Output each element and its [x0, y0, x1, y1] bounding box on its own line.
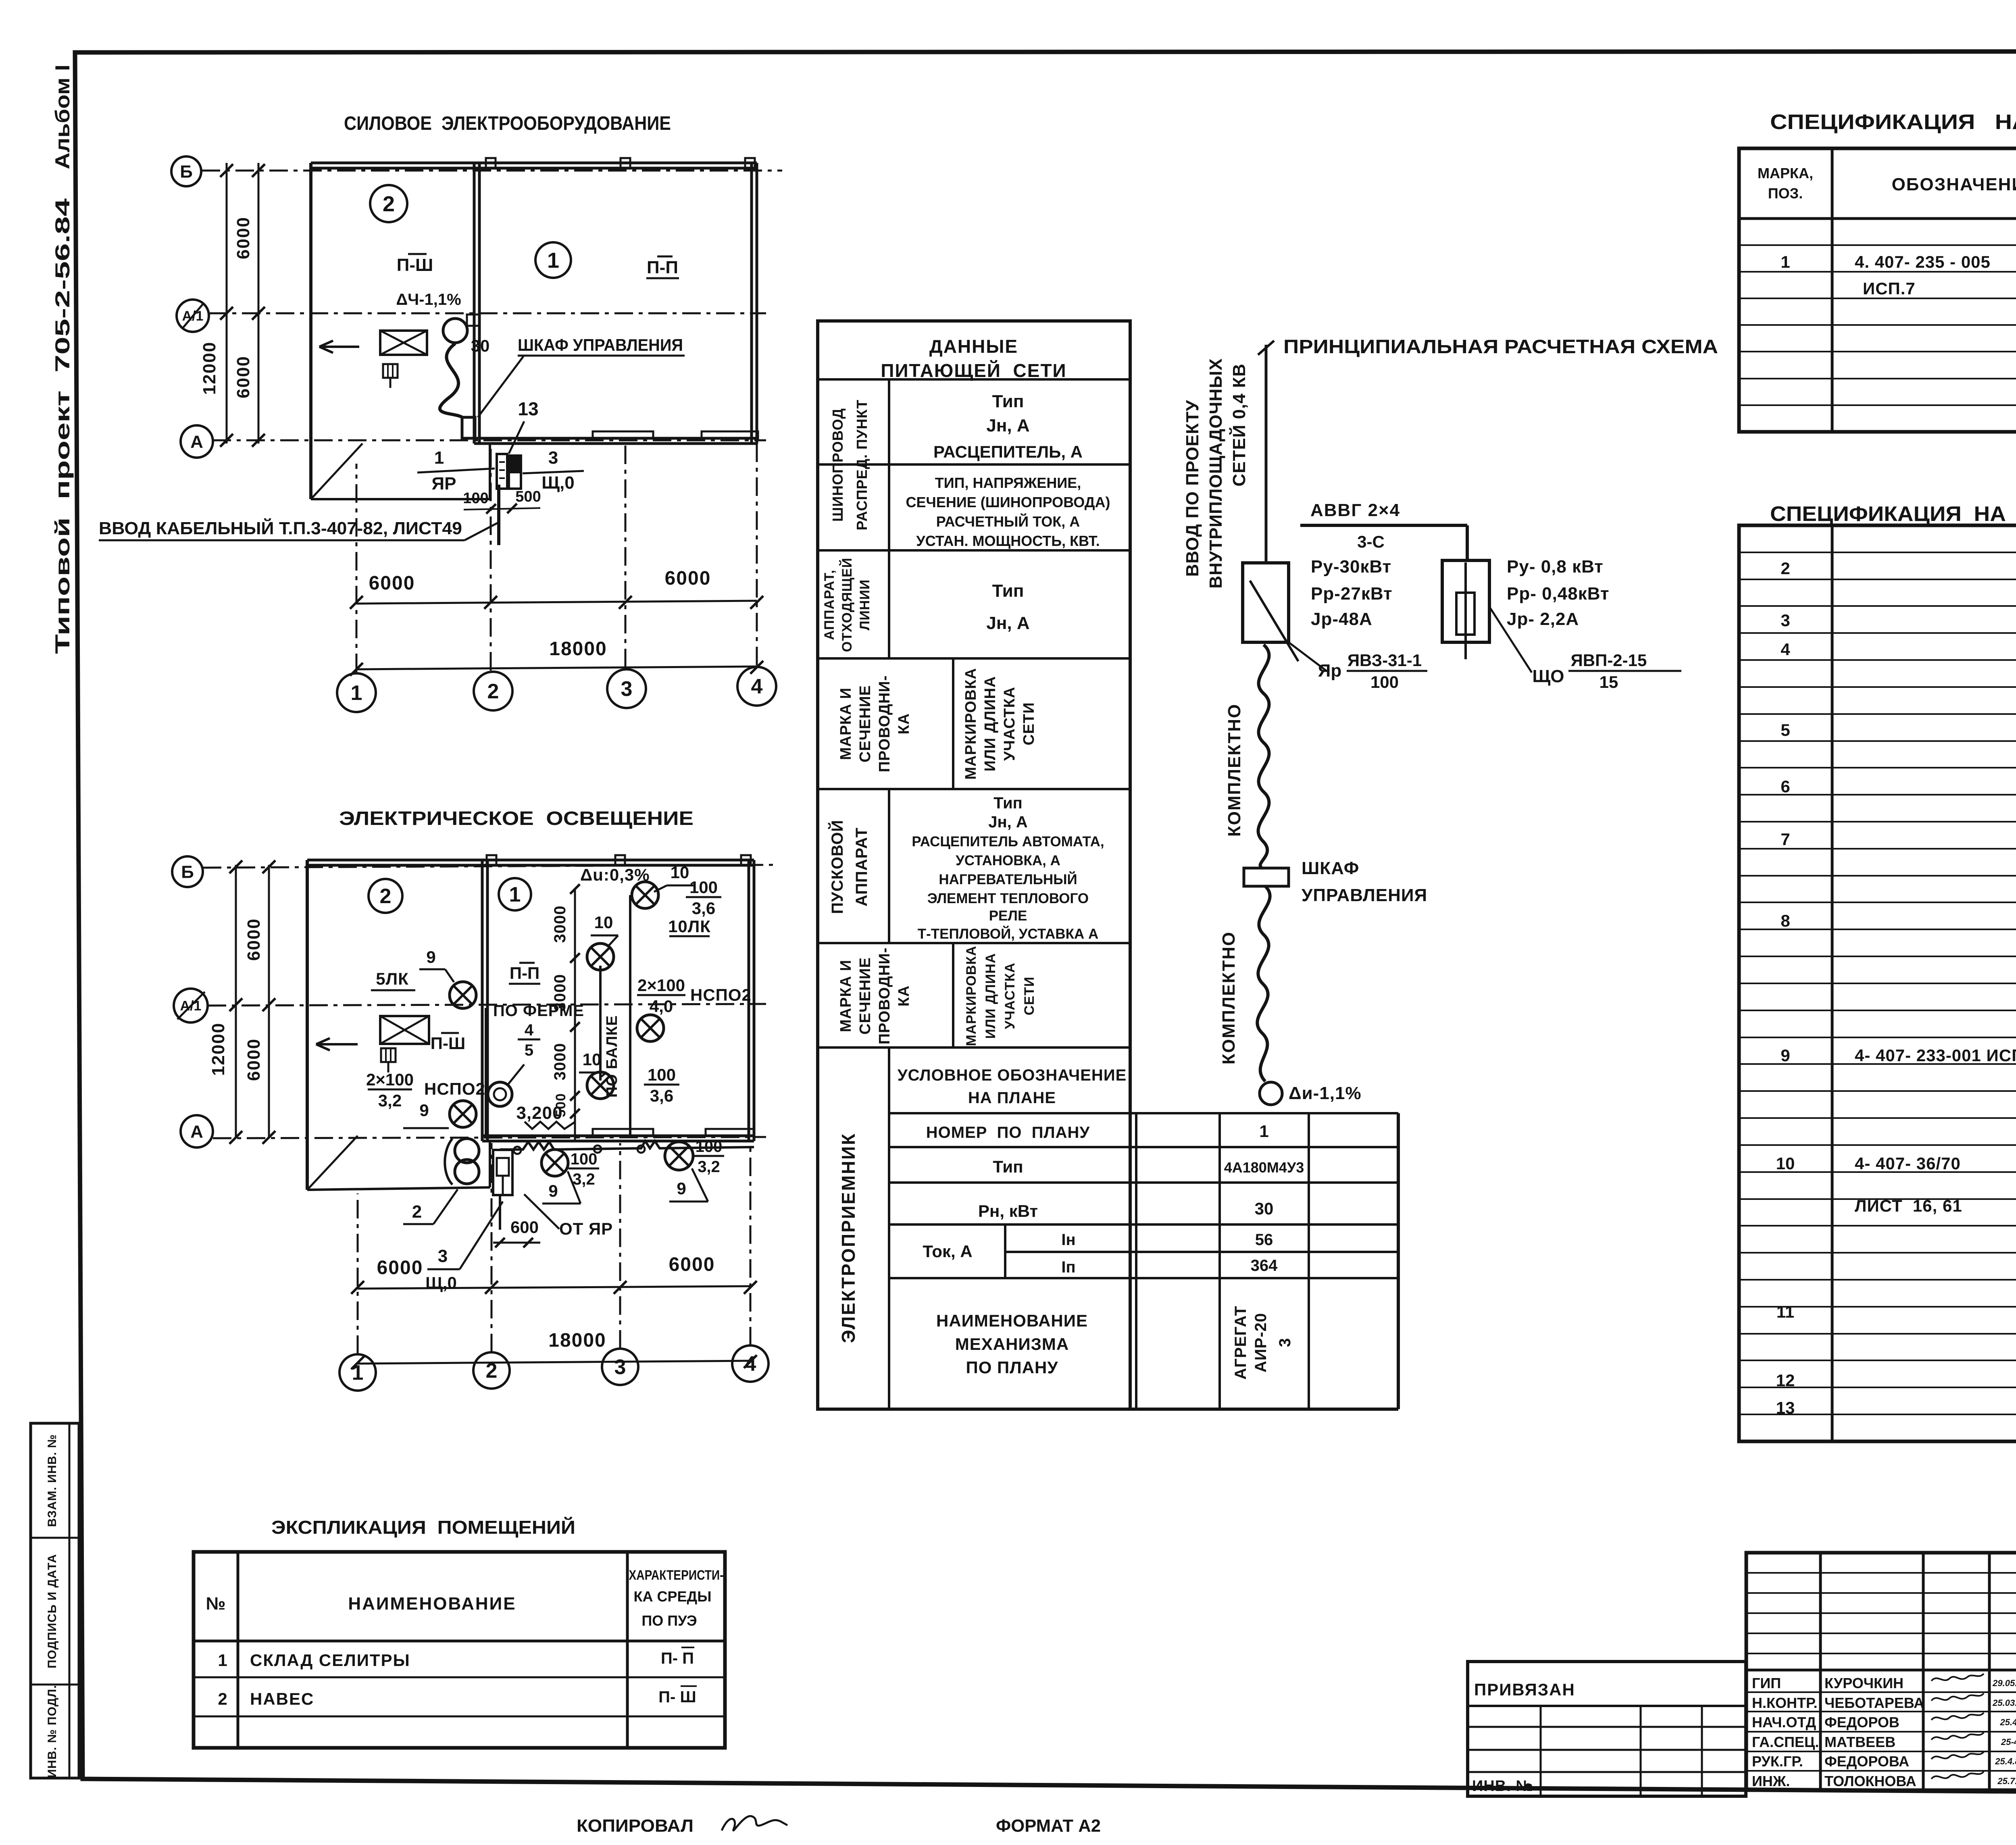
cable wavy 2	[1257, 886, 1270, 1081]
svg-text:1: 1	[547, 248, 559, 273]
axis line 2 vertical	[490, 446, 492, 671]
axis circle А/1	[177, 300, 209, 332]
box ShchO schematic	[1442, 560, 1489, 659]
svg-text:ЯВП-2-15: ЯВП-2-15	[1571, 651, 1647, 670]
svg-text:МАРКИРОВКА: МАРКИРОВКА	[964, 945, 979, 1046]
column mark	[745, 158, 755, 168]
axis circle А/1	[174, 989, 208, 1022]
axis line A lighting	[213, 1137, 766, 1138]
axis line 3 vertical	[625, 444, 627, 667]
svg-text:10: 10	[583, 1050, 602, 1069]
cable wavy 1	[1258, 645, 1269, 868]
cable entry label	[99, 518, 498, 540]
strip divider 2	[31, 1684, 79, 1686]
svg-text:МАРКА,: МАРКА,	[1758, 165, 1813, 181]
axis circle 3	[602, 1349, 638, 1385]
svg-text:3,2: 3,2	[378, 1091, 402, 1110]
svg-text:10: 10	[594, 913, 613, 932]
svg-text:Ру- 0,8 кВт: Ру- 0,8 кВт	[1507, 557, 1604, 577]
svg-text:УПРАВЛЕНИЯ: УПРАВЛЕНИЯ	[1302, 885, 1427, 905]
axis circle 1	[339, 1354, 376, 1391]
svg-text:1: 1	[509, 883, 521, 906]
svg-text:Јр-48А: Јр-48А	[1311, 609, 1372, 629]
svg-text:3: 3	[548, 448, 558, 468]
svg-text:УСТАН. МОЩНОСТЬ, КВТ.: УСТАН. МОЩНОСТЬ, КВТ.	[916, 533, 1100, 549]
title block outline	[1746, 1553, 2016, 1790]
svg-text:29.05.84: 29.05.84	[1992, 1678, 2016, 1688]
svg-text:12000: 12000	[208, 1022, 228, 1076]
frac 100/3.6 L4	[644, 1065, 679, 1105]
svg-text:3000: 3000	[551, 1043, 569, 1081]
svg-text:КА: КА	[896, 713, 912, 735]
svg-text:3000: 3000	[551, 906, 569, 943]
box ShchO	[509, 456, 521, 489]
dim line 6000/6000 vertical	[258, 163, 260, 444]
svg-text:Јн, А: Јн, А	[986, 613, 1029, 633]
box YaR	[497, 454, 507, 489]
axis circle Б	[171, 156, 201, 186]
local light symbol	[488, 1082, 512, 1106]
svg-text:ГА.СПЕЦ.: ГА.СПЕЦ.	[1752, 1734, 1819, 1750]
svg-text:3: 3	[621, 677, 633, 701]
dim line 6000 vertical lighting	[268, 865, 270, 1138]
svg-text:15: 15	[1599, 673, 1618, 691]
svg-text:П-Ш: П-Ш	[431, 1034, 465, 1053]
svg-text:ОТ ЯР: ОТ ЯР	[559, 1219, 613, 1238]
svg-text:3: 3	[1781, 611, 1790, 630]
svg-text:5: 5	[525, 1041, 533, 1059]
svg-text:ПО ФЕРМЕ: ПО ФЕРМЕ	[493, 1002, 584, 1020]
svg-text:100: 100	[648, 1065, 676, 1084]
svg-text:П-П: П-П	[647, 258, 678, 277]
svg-text:4- 407- 36/70: 4- 407- 36/70	[1855, 1154, 1961, 1173]
axis line A/1 lighting	[208, 1004, 766, 1006]
svg-text:Б: Б	[181, 862, 194, 882]
strip divider 1	[31, 1537, 79, 1539]
svg-text:ШКАФ: ШКАФ	[1302, 858, 1359, 878]
svg-text:4,0: 4,0	[650, 997, 673, 1016]
zone label P-II	[646, 256, 679, 278]
svg-text:СКЛАД СЕЛИТРЫ: СКЛАД СЕЛИТРЫ	[250, 1651, 410, 1670]
svg-text:РАСЦЕПИТЕЛЬ АВТОМАТА,: РАСЦЕПИТЕЛЬ АВТОМАТА,	[912, 834, 1104, 850]
svg-text:КОМПЛЕКТНО: КОМПЛЕКТНО	[1225, 704, 1244, 837]
svg-text:СЕЧЕНИЕ: СЕЧЕНИЕ	[857, 685, 874, 762]
room circle 1	[535, 242, 571, 278]
spec2 outline	[1739, 525, 2016, 1441]
svg-text:25.03.85: 25.03.85	[1992, 1698, 2016, 1708]
svg-text:9: 9	[548, 1181, 558, 1200]
svg-text:3,6: 3,6	[650, 1086, 673, 1105]
svg-text:Альбом I: Альбом I	[51, 65, 74, 169]
label 3 / Shch0	[425, 1202, 503, 1292]
svg-text:ЭЛЕКТРИЧЕСКОЕ ОСВЕЩЕНИЕ: ЭЛЕКТРИЧЕСКОЕ ОСВЕЩЕНИЕ	[339, 808, 694, 829]
svg-text:100: 100	[1370, 673, 1399, 691]
svg-text:Ру-30кВт: Ру-30кВт	[1311, 557, 1391, 577]
feed table outline	[818, 321, 1130, 1409]
svg-text:ДАННЫЕ: ДАННЫЕ	[929, 336, 1018, 357]
svg-text:СЕЧЕНИЕ: СЕЧЕНИЕ	[857, 957, 874, 1035]
hatched equipment box lighting	[380, 1016, 429, 1044]
dim 600	[493, 1218, 540, 1247]
svg-text:РЕЛЕ: РЕЛЕ	[989, 908, 1027, 924]
svg-text:Тип: Тип	[992, 391, 1024, 411]
svg-text:10: 10	[1776, 1154, 1795, 1173]
svg-text:2×100: 2×100	[637, 976, 685, 995]
svg-text:25.4.85: 25.4.85	[1995, 1756, 2016, 1766]
svg-text:МАРКА И: МАРКА И	[837, 960, 854, 1032]
lamp L2	[587, 943, 614, 970]
svg-text:6000: 6000	[665, 568, 711, 589]
hook 3200	[525, 1122, 575, 1129]
svg-text:ПРИВЯЗАН: ПРИВЯЗАН	[1474, 1680, 1575, 1699]
label 10lk	[668, 917, 711, 936]
svg-text:2: 2	[412, 1202, 422, 1222]
label 3 / Shch,O	[523, 448, 584, 493]
svg-text:МАРКА И: МАРКА И	[837, 687, 854, 760]
frac 100/3.6 top	[686, 878, 721, 918]
margin strip box	[31, 1423, 79, 1778]
control cabinet on plan	[462, 417, 475, 438]
svg-text:ИЛИ ДЛИНА: ИЛИ ДЛИНА	[982, 676, 999, 772]
control cabinet schematic	[1244, 868, 1289, 886]
dim line 12000 vertical lighting	[235, 865, 237, 1138]
label 10 L2	[591, 913, 618, 945]
axis circle 4	[737, 667, 776, 706]
svg-text:4- 407- 233-001 ИСП.3: 4- 407- 233-001 ИСП.3	[1855, 1046, 2016, 1065]
svg-text:6000: 6000	[233, 217, 253, 259]
svg-text:18000: 18000	[548, 1330, 606, 1351]
svg-text:НОМЕР ПО ПЛАНУ: НОМЕР ПО ПЛАНУ	[926, 1124, 1090, 1141]
svg-text:П-П: П-П	[510, 964, 539, 983]
svg-text:Рр-27кВт: Рр-27кВт	[1311, 584, 1393, 604]
junction box	[514, 1147, 521, 1154]
svg-text:6000: 6000	[244, 1038, 264, 1081]
svg-text:ЛИНИИ: ЛИНИИ	[857, 579, 873, 631]
wire to lamps row right	[629, 895, 631, 1138]
svg-text:АВВГ 2×4: АВВГ 2×4	[1310, 500, 1400, 520]
transformer symbol	[445, 1139, 479, 1185]
svg-text:НАГРЕВАТЕЛЬНЫЙ: НАГРЕВАТЕЛЬНЫЙ	[939, 871, 1077, 887]
svg-text:СЕТИ: СЕТИ	[1022, 977, 1037, 1015]
svg-text:Јн, А: Јн, А	[986, 416, 1029, 435]
vent symbol	[383, 364, 398, 388]
svg-text:ОТХОДЯЩЕЙ: ОТХОДЯЩЕЙ	[839, 558, 855, 652]
svg-text:ИНВ. №: ИНВ. №	[1472, 1778, 1533, 1795]
svg-text:ВВОД ПО ПРОЕКТУ: ВВОД ПО ПРОЕКТУ	[1183, 400, 1202, 577]
svg-text:3: 3	[614, 1356, 626, 1379]
svg-text:А: А	[190, 432, 203, 452]
svg-text:ИСП.7: ИСП.7	[1863, 279, 1916, 298]
frac 2x100/3.2	[366, 1070, 414, 1110]
svg-text:7: 7	[1781, 830, 1790, 849]
label 1 / YaR	[417, 448, 495, 494]
svg-text:НА ПЛАНЕ: НА ПЛАНЕ	[968, 1089, 1056, 1107]
svg-text:13: 13	[518, 398, 538, 419]
svg-text:Рр- 0,48кВт: Рр- 0,48кВт	[1507, 584, 1610, 604]
svg-text:6000: 6000	[233, 356, 253, 398]
svg-text:6: 6	[1781, 777, 1790, 796]
junction box	[637, 1145, 645, 1153]
wire lamps middle column	[599, 966, 602, 1081]
svg-text:П- П: П- П	[661, 1649, 694, 1667]
svg-text:25.7.3: 25.7.3	[1997, 1776, 2016, 1786]
svg-text:ПО ПЛАНУ: ПО ПЛАНУ	[966, 1358, 1058, 1377]
svg-text:9: 9	[677, 1179, 686, 1198]
axis circle 1	[337, 673, 376, 712]
svg-text:3,2: 3,2	[573, 1170, 595, 1188]
svg-text:6000: 6000	[244, 918, 264, 961]
svg-text:Δи-1,1%: Δи-1,1%	[1289, 1083, 1362, 1103]
svg-text:АГРЕГАТ: АГРЕГАТ	[1232, 1306, 1250, 1379]
svg-text:5ЛК: 5ЛК	[376, 969, 408, 988]
svg-text:Тип: Тип	[993, 794, 1023, 812]
svg-text:Δu:0,3%: Δu:0,3%	[580, 865, 650, 884]
lamp L7	[541, 1149, 568, 1176]
svg-text:ВЗАМ. ИНВ. №: ВЗАМ. ИНВ. №	[46, 1434, 59, 1527]
svg-text:МАТВЕЕВ: МАТВЕЕВ	[1824, 1734, 1895, 1750]
svg-text:УЧАСТКА: УЧАСТКА	[1001, 687, 1018, 761]
axis line B	[202, 170, 782, 172]
end node circle	[1260, 1082, 1282, 1105]
svg-text:12000: 12000	[200, 342, 219, 395]
dim line 18000 lighting	[358, 1361, 750, 1364]
cable run line	[1300, 524, 1467, 527]
svg-text:СЕЧЕНИЕ (ШИНОПРОВОДА): СЕЧЕНИЕ (ШИНОПРОВОДА)	[906, 494, 1110, 510]
axis line A	[212, 439, 766, 441]
zone label P-III lighting	[431, 1033, 465, 1053]
svg-text:ЩО: ЩО	[1532, 666, 1564, 686]
svg-text:ЭЛЕКТРОПРИЕМНИК: ЭЛЕКТРОПРИЕМНИК	[838, 1133, 859, 1343]
svg-text:2: 2	[380, 885, 392, 908]
svg-text:4А180М4У3: 4А180М4У3	[1224, 1159, 1304, 1176]
svg-text:6000: 6000	[377, 1257, 423, 1279]
axis 2 vertical lighting	[491, 1143, 493, 1352]
svg-text:КА СРЕДЫ: КА СРЕДЫ	[634, 1588, 712, 1605]
vent symbol lighting	[381, 1048, 396, 1072]
svg-text:ПРОВОДНИ-: ПРОВОДНИ-	[876, 947, 893, 1045]
svg-text:4: 4	[525, 1021, 534, 1039]
svg-text:Ток, А: Ток, А	[923, 1242, 972, 1261]
svg-text:8: 8	[1781, 911, 1790, 930]
svg-text:Н.КОНТР.: Н.КОНТР.	[1752, 1695, 1818, 1711]
column mark	[487, 855, 496, 865]
svg-text:РУК.ГР.: РУК.ГР.	[1752, 1753, 1803, 1770]
svg-text:ПО БАЛКЕ: ПО БАЛКЕ	[604, 1015, 621, 1097]
svg-text:1: 1	[218, 1651, 227, 1670]
svg-text:ИНВ. № ПОДЛ.: ИНВ. № ПОДЛ.	[46, 1685, 59, 1778]
svg-text:10: 10	[671, 863, 689, 882]
axis line B lighting	[203, 865, 774, 868]
svg-text:ФОРМАТ А2: ФОРМАТ А2	[996, 1816, 1101, 1836]
svg-text:КУРОЧКИН: КУРОЧКИН	[1824, 1675, 1904, 1691]
arrow left lighting	[316, 1038, 358, 1050]
svg-text:АППАРАТ,: АППАРАТ,	[822, 570, 837, 640]
svg-text:3: 3	[1276, 1338, 1294, 1347]
svg-text:Рн, кВт: Рн, кВт	[978, 1202, 1038, 1220]
svg-text:ФЕДОРОВА: ФЕДОРОВА	[1824, 1753, 1909, 1770]
box ShchO lighting	[493, 1150, 512, 1195]
axis line A/1	[208, 312, 766, 314]
svg-text:11: 11	[1776, 1302, 1794, 1321]
svg-text:3-С: 3-С	[1357, 532, 1385, 551]
box YaR schematic	[1243, 563, 1298, 661]
axis circle 2	[474, 672, 512, 710]
svg-text:НАИМЕНОВАНИЕ: НАИМЕНОВАНИЕ	[348, 1594, 516, 1614]
svg-text:СИЛОВОЕ ЭЛЕКТРООБОРУДОВАНИЕ: СИЛОВОЕ ЭЛЕКТРООБОРУДОВАНИЕ	[344, 113, 671, 134]
column mark	[741, 855, 751, 865]
svg-text:А: А	[190, 1122, 203, 1141]
axis 3 vertical lighting	[619, 1143, 621, 1349]
room circle 2	[369, 879, 402, 913]
spec1 outline	[1739, 148, 2016, 432]
svg-text:АИР-20: АИР-20	[1252, 1313, 1270, 1372]
svg-text:ПОЗ.: ПОЗ.	[1768, 185, 1803, 202]
svg-text:РАСЦЕПИТЕЛЬ, А: РАСЦЕПИТЕЛЬ, А	[933, 442, 1083, 461]
lamp L5	[450, 982, 476, 1008]
svg-text:Iн: Iн	[1061, 1231, 1075, 1249]
svg-text:9: 9	[419, 1101, 429, 1120]
frac 100/3.2 L8	[694, 1138, 724, 1176]
privyazan outline	[1468, 1662, 1746, 1796]
label 9 L8	[669, 1168, 708, 1202]
svg-text:2: 2	[487, 680, 499, 703]
building walls power plan	[311, 162, 757, 165]
svg-text:10ЛК: 10ЛК	[668, 917, 711, 936]
axis circle 4	[732, 1345, 768, 1382]
pilaster	[706, 1129, 754, 1136]
svg-text:Яр: Яр	[1318, 661, 1342, 681]
svg-text:1: 1	[1781, 252, 1790, 271]
wire along inner wall	[485, 1008, 487, 1138]
svg-text:13: 13	[1776, 1398, 1795, 1417]
incoming cable drop	[497, 485, 500, 545]
svg-text:100: 100	[463, 490, 488, 507]
svg-text:КА: КА	[896, 985, 912, 1007]
zone label P-III	[397, 254, 433, 275]
svg-text:30: 30	[471, 336, 490, 355]
svg-text:6000: 6000	[669, 1254, 715, 1275]
svg-text:2: 2	[1781, 559, 1790, 578]
frac 4/5	[518, 1021, 540, 1059]
naves left wall	[309, 163, 312, 499]
svg-text:100: 100	[571, 1150, 598, 1168]
svg-text:ШИНОПРОВОД: ШИНОПРОВОД	[829, 408, 846, 522]
svg-text:КОМПЛЕКТНО: КОМПЛЕКТНО	[1219, 931, 1239, 1064]
svg-text:6000: 6000	[369, 573, 415, 594]
svg-text:100: 100	[696, 1138, 723, 1156]
svg-text:ТИП, НАПРЯЖЕНИЕ,: ТИП, НАПРЯЖЕНИЕ,	[935, 475, 1081, 491]
svg-text:ЯР: ЯР	[432, 474, 456, 494]
svg-text:СЕТИ: СЕТИ	[1020, 702, 1037, 745]
label 9 L7	[542, 1171, 581, 1204]
svg-text:4: 4	[751, 675, 763, 698]
svg-text:100: 100	[689, 878, 718, 897]
svg-text:Тип: Тип	[993, 1157, 1023, 1176]
frac 100/3.2 L7	[569, 1150, 599, 1188]
lamp L4	[587, 1072, 614, 1099]
svg-text:Т-ТЕПЛОВОЙ, УСТАВКА А: Т-ТЕПЛОВОЙ, УСТАВКА А	[918, 926, 1098, 942]
svg-text:ГИП: ГИП	[1752, 1675, 1781, 1691]
dim line 12000 vertical	[226, 163, 228, 444]
explication outline	[194, 1552, 725, 1748]
svg-text:3,6: 3,6	[692, 899, 715, 918]
column mark	[615, 855, 625, 865]
svg-text:ИЛИ ДЛИНА: ИЛИ ДЛИНА	[983, 953, 998, 1039]
room circle 1	[499, 878, 531, 910]
dim chain vertical	[574, 889, 576, 1141]
svg-text:НСПО2: НСПО2	[424, 1079, 485, 1098]
signature after kopiroval	[722, 1816, 787, 1830]
arrow left	[319, 341, 359, 353]
svg-text:5: 5	[1781, 721, 1790, 739]
svg-text:ПОДПИСЬ И ДАТА: ПОДПИСЬ И ДАТА	[46, 1554, 59, 1668]
svg-text:КОПИРОВАЛ: КОПИРОВАЛ	[577, 1816, 694, 1836]
svg-text:№: №	[206, 1594, 225, 1614]
svg-text:СПЕЦИФИКАЦИЯ НА СИЛОВОЕ: СПЕЦИФИКАЦИЯ НА СИЛОВОЕ ЭЛЕКТРООБОРУДОВА…	[1770, 110, 2016, 134]
motor connector box	[467, 314, 479, 326]
svg-text:9: 9	[426, 947, 435, 966]
svg-text:1: 1	[434, 448, 444, 468]
svg-text:ЯВЗ-31-1: ЯВЗ-31-1	[1347, 651, 1422, 670]
svg-text:УСТАНОВКА, А: УСТАНОВКА, А	[956, 853, 1060, 868]
label 9 L6	[403, 1101, 449, 1128]
svg-text:П- Ш: П- Ш	[658, 1688, 696, 1706]
svg-text:Типовой проект 705-2-56.84: Типовой проект 705-2-56.84	[51, 198, 74, 654]
consumer sub-table	[889, 1112, 1398, 1114]
control cabinet label	[478, 335, 685, 417]
label 10 with leader	[654, 863, 694, 892]
svg-text:ВНУТРИПЛОЩАДОЧНЫХ: ВНУТРИПЛОЩАДОЧНЫХ	[1206, 358, 1226, 588]
small dims 100 500	[463, 488, 541, 514]
lamp L8	[665, 1142, 693, 1170]
svg-text:1: 1	[1259, 1122, 1268, 1141]
svg-text:УЧАСТКА: УЧАСТКА	[1002, 962, 1018, 1029]
svg-text:СПЕЦИФИКАЦИЯ НА ЭЛЕКТРИЧЕСКО: СПЕЦИФИКАЦИЯ НА ЭЛЕКТРИЧЕСКОЕ ОСВЕЩЕНИЕ	[1770, 502, 2016, 526]
svg-text:МАРКИРОВКА: МАРКИРОВКА	[962, 668, 979, 779]
svg-text:ПИТАЮЩЕЙ СЕТИ: ПИТАЮЩЕЙ СЕТИ	[881, 360, 1066, 381]
svg-text:Щ,0: Щ,0	[425, 1273, 457, 1292]
svg-text:4: 4	[1781, 640, 1790, 659]
svg-text:3,200: 3,200	[516, 1103, 562, 1123]
svg-text:2: 2	[383, 192, 395, 216]
svg-text:3,2: 3,2	[698, 1158, 720, 1176]
svg-text:НАИМЕНОВАНИЕ: НАИМЕНОВАНИЕ	[936, 1311, 1088, 1330]
svg-text:ОБОЗНАЧЕНИЕ: ОБОЗНАЧЕНИЕ	[1892, 175, 2016, 194]
svg-text:Јр- 2,2А: Јр- 2,2А	[1507, 609, 1579, 629]
svg-text:3: 3	[438, 1246, 448, 1266]
svg-text:ΔЧ-1,1%: ΔЧ-1,1%	[396, 291, 461, 308]
building walls lighting plan	[307, 859, 754, 862]
frac 2x100/4.0	[637, 976, 685, 1016]
svg-text:ПУСКОВОЙ: ПУСКОВОЙ	[828, 820, 846, 914]
naves diagonal	[311, 444, 362, 499]
svg-text:Јн, А: Јн, А	[988, 813, 1028, 831]
naves left wall lighting	[306, 860, 309, 1190]
svg-text:2: 2	[218, 1689, 227, 1708]
naves diagonal lighting	[307, 1136, 358, 1190]
svg-text:30: 30	[1255, 1199, 1274, 1218]
svg-text:НСПО2: НСПО2	[690, 985, 752, 1004]
svg-text:12: 12	[1776, 1371, 1795, 1390]
axis 1 vertical lighting	[357, 1193, 359, 1354]
zone label P-II lighting	[509, 963, 540, 984]
svg-text:Тип: Тип	[992, 581, 1024, 601]
motor circle	[443, 319, 467, 343]
label 10 L4	[579, 1050, 606, 1077]
dim line 6000 bottom	[356, 601, 757, 604]
svg-text:ПРИНЦИПИАЛЬНАЯ РАСЧЕТНАЯ СХЕМА: ПРИНЦИПИАЛЬНАЯ РАСЧЕТНАЯ СХЕМА	[1283, 336, 1718, 358]
naves bottom	[311, 498, 490, 500]
